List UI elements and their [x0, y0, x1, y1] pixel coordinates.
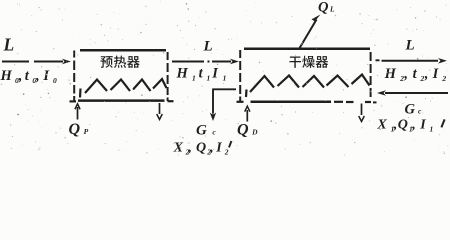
svg-text:X1,Q1,I1: X1,Q1,I1 [376, 118, 433, 134]
label 干燥器 [289, 56, 328, 68]
dryer box 干燥器 [237, 49, 377, 103]
svg-text:L: L [405, 38, 415, 54]
heater coil zigzag in dryer [246, 75, 370, 98]
label 预热器 [100, 56, 139, 68]
svg-text:QL: QL [318, 0, 335, 16]
arrow: heat Qp into preheater [77, 107, 79, 120]
svg-text:QP: QP [69, 121, 89, 138]
wire: heated air arrow from preheater to dryer [172, 61, 204, 63]
wire: inlet air arrow into preheater [2, 61, 29, 63]
svg-text:Gc: Gc [405, 102, 422, 118]
svg-text:H2,t2,I2: H2,t2,I2 [384, 66, 447, 83]
wire: wet material arrow into dryer (leftward) [385, 92, 448, 94]
svg-text:X2,Q2,I2: X2,Q2,I2 [173, 141, 229, 157]
arrow: condensate out of preheater (down) [159, 103, 161, 114]
heater coil zigzag in preheater [80, 79, 167, 98]
scan speckle noise (decorative) [1, 1, 449, 156]
svg-text:QD: QD [237, 122, 258, 139]
arrow: heat loss QL out of dryer top [299, 20, 317, 50]
preheater box 预热器 [70, 50, 174, 101]
arrow: heat Qd into dryer [246, 110, 248, 122]
wire: product outlet from dryer (left + down) [212, 88, 236, 90]
arrow: outlet below dryer right (down) [361, 104, 363, 116]
svg-text:H1t1I1: H1t1I1 [176, 66, 227, 83]
svg-text:H0,t0,I0: H0,t0,I0 [0, 68, 57, 85]
svg-text:L: L [3, 35, 15, 55]
svg-text:L: L [203, 39, 213, 55]
wire: exhaust air arrow out of dryer [376, 59, 380, 61]
